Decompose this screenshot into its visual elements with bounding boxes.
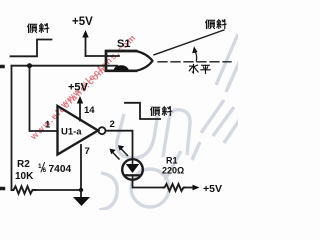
svg-text:220Ω: 220Ω <box>162 166 184 176</box>
svg-text:7: 7 <box>85 146 90 157</box>
node ground junction <box>79 188 83 192</box>
label tilt 倾斜 top right <box>206 20 226 29</box>
svg-text:+5V: +5V <box>68 82 89 94</box>
inverter U1-a triangle <box>58 106 99 155</box>
LED D1 <box>109 145 142 180</box>
inverter output bubble <box>99 127 106 134</box>
wire junction to U1-a pin1 <box>30 66 58 131</box>
svg-text:R2: R2 <box>17 159 30 170</box>
svg-text:S1: S1 <box>117 38 130 50</box>
pin7 wire <box>80 145 82 190</box>
wire pin2 to LED <box>106 131 133 159</box>
wire R1 to +5V arrow <box>185 187 193 189</box>
svg-text:10K: 10K <box>15 171 34 182</box>
wire R2 to ground node <box>36 189 82 191</box>
svg-text:2: 2 <box>110 119 115 130</box>
svg-text:R1: R1 <box>166 156 178 166</box>
svg-text:6: 6 <box>43 167 47 174</box>
svg-text:1: 1 <box>38 163 42 170</box>
edge artifact left bottom <box>0 187 4 191</box>
+5V supply mid (pin 14) <box>68 82 89 104</box>
input step waveform <box>11 40 52 57</box>
svg-text:14: 14 <box>84 105 95 116</box>
svg-text:U1-a: U1-a <box>61 127 82 138</box>
wire left branch down to R2 <box>11 66 13 190</box>
LED light arrows <box>113 152 120 159</box>
svg-text:+5V: +5V <box>203 183 222 195</box>
pin14 wire <box>79 103 81 121</box>
watermark red elecfans <box>28 33 138 142</box>
node junction input net <box>27 63 32 68</box>
watermark gray letters <box>99 34 247 210</box>
label level 水平 <box>189 64 210 73</box>
output step waveform <box>125 103 160 119</box>
tilt indicator dashed level line <box>158 61 231 63</box>
label output tilt 倾斜 <box>151 107 172 116</box>
label 1/6 7404 <box>38 163 71 176</box>
ground <box>73 190 90 206</box>
wire main input net <box>12 65 106 67</box>
wire +5V to S1 top contact <box>86 55 106 57</box>
tilt indicator diagonal line <box>154 30 224 55</box>
resistor R2 <box>12 159 36 194</box>
resistor R1 <box>162 156 185 192</box>
edge artifact left mid <box>0 65 3 69</box>
switch S1 <box>106 38 153 71</box>
+5V supply top <box>72 16 93 56</box>
svg-text:7404: 7404 <box>49 164 72 175</box>
svg-text:1: 1 <box>45 120 51 131</box>
tilt angle arc arrow <box>195 52 196 61</box>
wire LED to R1 <box>133 180 164 188</box>
svg-text:+5V: +5V <box>72 16 93 28</box>
label input tilt 倾斜 <box>28 24 49 33</box>
